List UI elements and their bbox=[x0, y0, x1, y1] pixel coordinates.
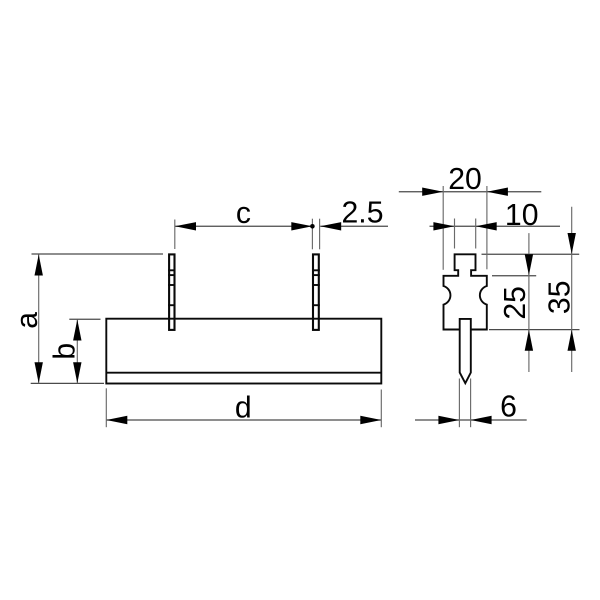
svg-text:35: 35 bbox=[543, 281, 576, 315]
svg-text:a: a bbox=[11, 312, 44, 329]
svg-text:20: 20 bbox=[448, 163, 482, 196]
svg-text:6: 6 bbox=[500, 390, 517, 423]
svg-text:c: c bbox=[236, 197, 251, 230]
svg-text:10: 10 bbox=[505, 199, 539, 232]
svg-text:d: d bbox=[235, 391, 252, 424]
svg-text:b: b bbox=[49, 343, 82, 360]
svg-text:25: 25 bbox=[499, 286, 532, 320]
svg-text:2.5: 2.5 bbox=[342, 197, 384, 230]
